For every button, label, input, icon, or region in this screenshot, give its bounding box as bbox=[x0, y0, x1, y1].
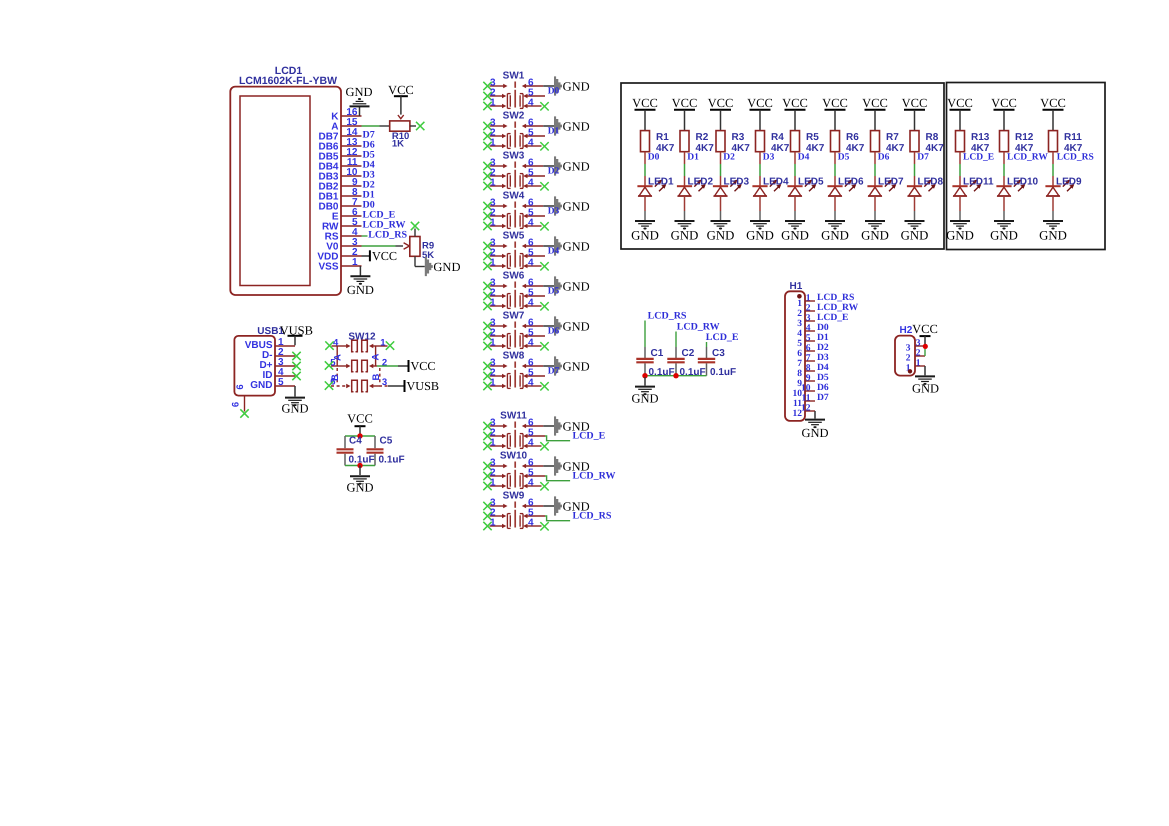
svg-text:A: A bbox=[371, 353, 382, 360]
no-connect bbox=[483, 342, 491, 350]
pin 12 of H1 bbox=[793, 403, 816, 419]
pin 1 of SW7 bbox=[490, 337, 507, 348]
svg-text:LED9: LED9 bbox=[1056, 177, 1082, 188]
net label LCD_RS bbox=[648, 310, 687, 321]
svg-text:9: 9 bbox=[806, 373, 811, 383]
svg-text:R4: R4 bbox=[771, 132, 784, 143]
pin 15 (A) of LCD1 bbox=[331, 117, 361, 133]
header H2 outline bbox=[895, 336, 915, 376]
pin 1 (VBUS) of USB1 bbox=[245, 337, 295, 351]
wire bbox=[362, 235, 368, 237]
svg-text:LCD_RS: LCD_RS bbox=[368, 230, 407, 241]
net label D5 bbox=[363, 150, 375, 161]
no-connect bbox=[483, 422, 491, 430]
no-connect bbox=[540, 182, 548, 190]
designator LED11 bbox=[963, 177, 994, 188]
capacitor C4 bbox=[337, 449, 354, 452]
no-connect bbox=[240, 409, 248, 417]
designator R3 bbox=[732, 132, 745, 143]
pin 6 of SW6 bbox=[522, 277, 543, 288]
power VCC (R2) bbox=[672, 96, 698, 131]
pole label A bbox=[333, 354, 344, 361]
svg-text:4: 4 bbox=[333, 337, 339, 348]
wire bbox=[545, 476, 570, 481]
svg-text:VCC: VCC bbox=[991, 96, 1017, 110]
power VCC (R4) bbox=[747, 96, 773, 131]
pin 5 of SW1 bbox=[523, 87, 545, 98]
capacitor C1 bbox=[636, 359, 653, 362]
wire bbox=[959, 152, 961, 187]
svg-text:D1: D1 bbox=[548, 127, 560, 137]
designator C2 bbox=[682, 348, 695, 359]
power VCC (H2) bbox=[912, 322, 938, 344]
pin 10 of H1 bbox=[793, 383, 816, 399]
capacitor C5 bbox=[367, 449, 384, 452]
svg-text:R5: R5 bbox=[806, 132, 819, 143]
resistor R6 bbox=[831, 131, 840, 152]
junction bbox=[357, 463, 362, 468]
net label D3 bbox=[763, 153, 775, 163]
no-connect bbox=[483, 222, 491, 230]
value 4K7 bbox=[806, 143, 825, 154]
resistor R3 bbox=[716, 131, 725, 152]
svg-text:7: 7 bbox=[806, 353, 811, 363]
pin 2 of SW12 bbox=[369, 357, 387, 368]
no-connect bbox=[483, 242, 491, 250]
LED LED5 bbox=[787, 180, 816, 196]
svg-text:VCC: VCC bbox=[947, 96, 973, 110]
wire bbox=[377, 365, 398, 367]
wire bbox=[644, 321, 646, 359]
wire bbox=[814, 411, 816, 419]
net label D5 bbox=[548, 287, 560, 297]
pin 6 of SW5 bbox=[522, 237, 543, 248]
pin 2 of SW9 bbox=[490, 507, 507, 518]
no-connect bbox=[540, 102, 548, 110]
potentiometer R9 bbox=[404, 229, 425, 267]
resistor R5 bbox=[791, 131, 800, 152]
wire bbox=[345, 465, 375, 467]
svg-text:C3: C3 bbox=[712, 348, 725, 359]
pushbutton switch SW2 bbox=[503, 111, 525, 149]
pin 2 of SW3 bbox=[490, 167, 507, 178]
wire bbox=[344, 436, 346, 448]
svg-text:GND: GND bbox=[563, 119, 590, 133]
pin 1 marker bbox=[797, 294, 802, 299]
pin 4 of SW5 bbox=[523, 257, 541, 268]
wire bbox=[1003, 196, 1005, 220]
LED LED11 bbox=[952, 180, 981, 196]
no-connect bbox=[483, 102, 491, 110]
svg-text:4: 4 bbox=[528, 297, 534, 308]
svg-text:VCC: VCC bbox=[782, 96, 808, 110]
pin 3 (D+) of USB1 bbox=[259, 357, 295, 371]
wire bbox=[959, 196, 961, 220]
svg-text:LED3: LED3 bbox=[724, 177, 750, 188]
value LCM1602K-FL-YBW bbox=[239, 75, 337, 87]
svg-text:LCM1602K-FL-YBW: LCM1602K-FL-YBW bbox=[239, 75, 337, 87]
value 5K bbox=[422, 250, 434, 261]
power VCC (R5) bbox=[782, 96, 808, 131]
net label LCD_RS bbox=[368, 230, 407, 241]
value 4K7 bbox=[1064, 143, 1083, 154]
designator LED8 bbox=[918, 177, 944, 188]
net label D4 bbox=[548, 247, 560, 257]
wire bbox=[684, 152, 686, 187]
designator USB1 bbox=[257, 326, 284, 337]
pushbutton switch SW5 bbox=[503, 231, 525, 269]
LED array box 2 bbox=[947, 83, 1106, 250]
pin 11 (DB4) of LCD1 bbox=[318, 157, 361, 173]
pushbutton switch SW11 bbox=[500, 411, 527, 449]
svg-text:GND: GND bbox=[801, 426, 828, 440]
svg-text:LED8: LED8 bbox=[918, 177, 944, 188]
svg-text:SW7: SW7 bbox=[503, 311, 525, 322]
svg-text:5: 5 bbox=[278, 377, 284, 388]
pin 6 of USB1 bbox=[231, 384, 247, 411]
svg-text:1: 1 bbox=[797, 299, 802, 309]
pin 2 of SW7 bbox=[490, 327, 507, 338]
svg-text:6: 6 bbox=[806, 343, 811, 353]
pin 3 of SW12 bbox=[369, 377, 388, 388]
pin 2 of SW6 bbox=[490, 287, 507, 298]
no-connect bbox=[483, 92, 491, 100]
wire bbox=[720, 196, 722, 220]
net label D6 bbox=[363, 140, 375, 151]
pin 6 of SW1 bbox=[522, 77, 543, 88]
pin 5 (RW) of LCD1 bbox=[322, 217, 361, 233]
net label D2 bbox=[817, 342, 829, 353]
svg-text:GND: GND bbox=[746, 228, 774, 242]
net label D5 bbox=[838, 153, 850, 163]
resistor R13 bbox=[956, 131, 965, 152]
pin 3 of SW4 bbox=[490, 197, 508, 208]
svg-text:SW9: SW9 bbox=[503, 491, 525, 502]
svg-text:R1: R1 bbox=[656, 132, 669, 143]
wire bbox=[914, 196, 916, 220]
wire bbox=[359, 466, 361, 476]
net label D6 bbox=[878, 153, 890, 163]
wire bbox=[543, 205, 554, 207]
svg-text:VCC: VCC bbox=[708, 96, 734, 110]
value 4K7 bbox=[846, 143, 865, 154]
pin 3 of H2 bbox=[906, 338, 925, 353]
ground (R2) bbox=[671, 221, 699, 242]
pin 13 (DB6) of LCD1 bbox=[318, 137, 361, 153]
pin 5 of SW5 bbox=[523, 247, 545, 258]
no-connect bbox=[483, 172, 491, 180]
svg-text:VCC: VCC bbox=[372, 249, 397, 263]
power VCC (R13) bbox=[947, 96, 973, 131]
svg-text:SW8: SW8 bbox=[503, 351, 525, 362]
wire bbox=[644, 377, 646, 386]
net label D4 bbox=[817, 362, 829, 373]
net label D2 bbox=[548, 167, 560, 177]
pin 6 of SW8 bbox=[522, 357, 543, 368]
pin 4 of SW7 bbox=[523, 337, 541, 348]
no-connect bbox=[483, 372, 491, 380]
svg-text:GND: GND bbox=[631, 392, 658, 406]
pin 2 of SW11 bbox=[490, 427, 507, 438]
designator LED9 bbox=[1056, 177, 1082, 188]
pin 16 (K) of LCD1 bbox=[331, 107, 361, 123]
pushbutton switch SW6 bbox=[503, 271, 525, 309]
ground (R9 bottom) bbox=[425, 257, 461, 276]
pin 4 (RS) of LCD1 bbox=[325, 227, 362, 243]
ground (USB1 pin 5) bbox=[281, 398, 308, 416]
pin 5 of SW2 bbox=[523, 127, 545, 138]
resistor R8 bbox=[910, 131, 919, 152]
svg-text:GND: GND bbox=[281, 401, 308, 415]
pin 5 of SW4 bbox=[523, 207, 545, 218]
no-connect bbox=[483, 482, 491, 490]
net label D1 bbox=[687, 153, 699, 163]
designator R12 bbox=[1015, 132, 1034, 143]
pin 6 of H1 bbox=[797, 343, 815, 359]
resistor R11 bbox=[1049, 131, 1058, 152]
pin 5 of H1 bbox=[797, 333, 815, 349]
svg-text:C5: C5 bbox=[380, 436, 393, 447]
wire bbox=[644, 363, 646, 375]
wire bbox=[545, 436, 570, 441]
value 4K7 bbox=[886, 143, 905, 154]
no-connect bbox=[483, 162, 491, 170]
pin 8 of H1 bbox=[797, 363, 815, 379]
net label D6 bbox=[548, 327, 560, 337]
no-connect bbox=[483, 522, 491, 530]
net label D4 bbox=[798, 153, 810, 163]
pin 4 of SW6 bbox=[523, 297, 541, 308]
svg-text:4: 4 bbox=[528, 377, 534, 388]
pin 1 of SW6 bbox=[490, 297, 507, 308]
pin 1 of SW4 bbox=[490, 217, 507, 228]
net label LCD_RW bbox=[363, 220, 406, 231]
ground (C4/C5) bbox=[346, 476, 373, 494]
resistor R1 bbox=[641, 131, 650, 152]
net label LCD_E bbox=[706, 332, 739, 343]
svg-text:GND: GND bbox=[433, 260, 460, 274]
switch SW12 linkage bbox=[337, 346, 380, 384]
LED LED1 bbox=[637, 180, 666, 196]
wire bbox=[543, 365, 554, 367]
svg-text:GND: GND bbox=[563, 239, 590, 253]
wire bbox=[362, 255, 370, 257]
designator C3 bbox=[712, 348, 725, 359]
svg-text:4: 4 bbox=[528, 477, 534, 488]
potentiometer R10 bbox=[380, 115, 417, 131]
net label D0 bbox=[363, 200, 375, 211]
net label D3 bbox=[548, 207, 560, 217]
svg-text:D7: D7 bbox=[817, 392, 829, 403]
no-connect bbox=[540, 482, 548, 490]
ground (SW1 pin 6) bbox=[554, 76, 590, 95]
pin 1 of SW12 bbox=[369, 337, 388, 348]
svg-text:GND: GND bbox=[563, 79, 590, 93]
pushbutton switch SW3 bbox=[503, 151, 525, 189]
designator C1 bbox=[651, 348, 664, 359]
net label D0 bbox=[817, 322, 829, 333]
pushbutton switch SW8 bbox=[503, 351, 525, 389]
svg-text:LED10: LED10 bbox=[1007, 177, 1039, 188]
LCD module LCD1 outline bbox=[230, 87, 341, 295]
junction bbox=[673, 373, 678, 378]
value 0.1uF bbox=[379, 455, 405, 466]
value 0.1uF bbox=[710, 367, 736, 378]
svg-text:R13: R13 bbox=[971, 132, 990, 143]
wire bbox=[1003, 152, 1005, 187]
pin 3 of SW1 bbox=[490, 77, 508, 88]
svg-text:8: 8 bbox=[806, 363, 811, 373]
wire bbox=[794, 152, 796, 187]
pin 2 of SW1 bbox=[490, 87, 507, 98]
wire bbox=[545, 516, 570, 521]
svg-text:SW5: SW5 bbox=[503, 231, 525, 242]
no-connect bbox=[483, 332, 491, 340]
svg-text:D0: D0 bbox=[548, 87, 560, 97]
svg-text:GND: GND bbox=[346, 480, 373, 494]
svg-text:4: 4 bbox=[797, 329, 802, 339]
svg-text:D5: D5 bbox=[838, 153, 850, 163]
no-connect bbox=[325, 381, 333, 389]
svg-text:GND: GND bbox=[563, 159, 590, 173]
svg-text:LCD_RS: LCD_RS bbox=[573, 511, 612, 522]
svg-text:1: 1 bbox=[380, 337, 386, 348]
designator LED1 bbox=[648, 177, 674, 188]
ground (R13) bbox=[946, 221, 974, 242]
designator R11 bbox=[1064, 132, 1082, 143]
pin 3 of SW11 bbox=[490, 417, 508, 428]
resistor R4 bbox=[756, 131, 765, 152]
value 0.1uF bbox=[349, 455, 375, 466]
no-connect bbox=[325, 361, 333, 369]
no-connect bbox=[483, 502, 491, 510]
no-connect bbox=[483, 82, 491, 90]
svg-text:SW11: SW11 bbox=[500, 411, 527, 422]
svg-text:SW2: SW2 bbox=[503, 111, 525, 122]
wire bbox=[388, 385, 404, 387]
svg-text:D4: D4 bbox=[798, 153, 810, 163]
pin 2 of H2 bbox=[906, 348, 925, 363]
pin 4 of SW3 bbox=[523, 177, 541, 188]
net label D1 bbox=[548, 127, 560, 137]
svg-text:D0: D0 bbox=[648, 153, 660, 163]
wire bbox=[359, 266, 361, 276]
svg-text:D4: D4 bbox=[548, 247, 560, 257]
ground (LCD pin 16) bbox=[345, 85, 372, 106]
pin 5 of SW12 bbox=[330, 357, 350, 368]
pin 2 of SW10 bbox=[490, 467, 507, 478]
svg-text:4: 4 bbox=[806, 323, 811, 333]
svg-text:LED5: LED5 bbox=[798, 177, 824, 188]
no-connect (R10 right) bbox=[416, 122, 424, 130]
svg-text:12: 12 bbox=[801, 403, 811, 413]
designator R13 bbox=[971, 132, 990, 143]
wire bbox=[645, 375, 707, 377]
pin 4 of SW10 bbox=[523, 477, 541, 488]
designator LCD1 bbox=[275, 65, 303, 77]
svg-text:D6: D6 bbox=[548, 327, 560, 337]
svg-text:VCC: VCC bbox=[1040, 96, 1066, 110]
svg-text:LED2: LED2 bbox=[688, 177, 714, 188]
svg-text:SW10: SW10 bbox=[500, 451, 528, 462]
wire bbox=[374, 436, 376, 448]
net label D0 bbox=[548, 87, 560, 97]
no-connect bbox=[483, 512, 491, 520]
svg-text:GND: GND bbox=[861, 228, 889, 242]
svg-text:C4: C4 bbox=[349, 436, 362, 447]
ground (C1) bbox=[631, 387, 658, 406]
wire bbox=[794, 196, 796, 220]
designator R10 bbox=[392, 131, 409, 142]
svg-text:1: 1 bbox=[352, 257, 358, 268]
pole label A bbox=[371, 353, 382, 360]
pin 3 of SW5 bbox=[490, 237, 508, 248]
pin 3 of SW10 bbox=[490, 457, 508, 468]
pin 6 of SW10 bbox=[522, 457, 543, 468]
svg-text:2: 2 bbox=[806, 303, 811, 313]
pin 5 of SW3 bbox=[523, 167, 545, 178]
svg-text:SW3: SW3 bbox=[503, 151, 525, 162]
no-connect bbox=[540, 442, 548, 450]
pin 2 of SW8 bbox=[490, 367, 507, 378]
no-connect bbox=[540, 222, 548, 230]
svg-text:GND: GND bbox=[901, 228, 929, 242]
svg-text:R12: R12 bbox=[1015, 132, 1034, 143]
pin 4 of SW1 bbox=[523, 97, 541, 108]
svg-text:1: 1 bbox=[916, 358, 921, 368]
pole label B bbox=[371, 373, 382, 380]
svg-text:VCC: VCC bbox=[862, 96, 888, 110]
resistor R7 bbox=[871, 131, 880, 152]
designator R7 bbox=[886, 132, 899, 143]
net label D6 bbox=[817, 382, 829, 393]
net label D7 bbox=[917, 153, 929, 163]
wire bbox=[834, 196, 836, 220]
wire bbox=[543, 85, 554, 87]
pin 1 of SW9 bbox=[490, 517, 507, 528]
wire bbox=[924, 349, 926, 356]
wire bbox=[359, 107, 361, 116]
svg-text:8: 8 bbox=[797, 369, 802, 379]
pin 1 of SW2 bbox=[490, 137, 507, 148]
no-connect bbox=[483, 282, 491, 290]
svg-text:VCC: VCC bbox=[411, 359, 436, 373]
pin 5 of SW11 bbox=[523, 427, 545, 438]
no-connect (R9 top) bbox=[411, 222, 419, 230]
svg-text:B: B bbox=[330, 374, 341, 381]
pushbutton switch SW1 bbox=[503, 71, 525, 109]
designator LED3 bbox=[724, 177, 750, 188]
svg-text:GND: GND bbox=[563, 319, 590, 333]
svg-text:VCC: VCC bbox=[632, 96, 658, 110]
no-connect bbox=[483, 142, 491, 150]
pin 4 of H1 bbox=[797, 323, 815, 339]
net label D2 bbox=[363, 180, 375, 191]
no-connect bbox=[483, 442, 491, 450]
svg-text:D3: D3 bbox=[548, 207, 560, 217]
svg-text:LCD_RW: LCD_RW bbox=[573, 471, 616, 482]
wire bbox=[914, 152, 916, 187]
pin 6 of SW2 bbox=[522, 117, 543, 128]
pin 2 of SW5 bbox=[490, 247, 507, 258]
wire bbox=[924, 366, 926, 375]
wire bbox=[834, 152, 836, 187]
svg-text:VCC: VCC bbox=[912, 322, 938, 336]
no-connect bbox=[292, 372, 300, 380]
no-connect bbox=[483, 462, 491, 470]
svg-text:D2: D2 bbox=[723, 153, 735, 163]
pin 4 (ID) of USB1 bbox=[263, 367, 296, 381]
